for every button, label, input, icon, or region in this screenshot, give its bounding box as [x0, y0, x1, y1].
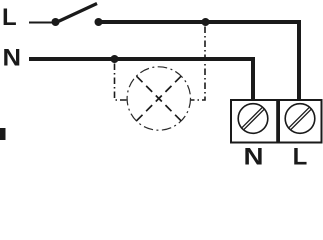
lamp E1 cross stroke 2	[137, 76, 182, 121]
lamp E1 (dashed circle)	[127, 67, 190, 130]
svg-text:N: N	[3, 45, 22, 72]
wire: N rail to right, down into terminal N	[29, 59, 253, 101]
screw slot L terminal	[288, 107, 310, 129]
node: junction dot on N rail	[111, 55, 119, 63]
screw head in N terminal	[238, 104, 268, 134]
terminal block: N terminal box	[231, 100, 277, 143]
terminal block: L terminal box	[279, 100, 322, 143]
wire: dash-dot tap from N rail down to lamp (left side)	[115, 64, 128, 101]
wire: dash-dot tap from L rail down to lamp (right side)	[191, 27, 206, 101]
wire: L rail from switch to right corner, down into terminal L	[98, 22, 299, 101]
switch S1 lever (open switch)	[56, 4, 97, 23]
svg-text:L: L	[2, 4, 17, 31]
screw head in L terminal	[285, 104, 315, 134]
node: junction dot on L rail	[202, 18, 210, 26]
wire: thin lead from L to switch pivot	[29, 22, 54, 24]
edge mark (left margin artifact)	[0, 128, 6, 140]
screw slot N terminal	[241, 107, 263, 129]
svg-text:N: N	[244, 144, 264, 169]
switch S1 right contact dot	[95, 18, 103, 26]
switch S1 pivot junction dot	[52, 18, 60, 26]
lamp E1 cross stroke 1	[137, 76, 182, 121]
svg-text:L: L	[293, 144, 308, 169]
